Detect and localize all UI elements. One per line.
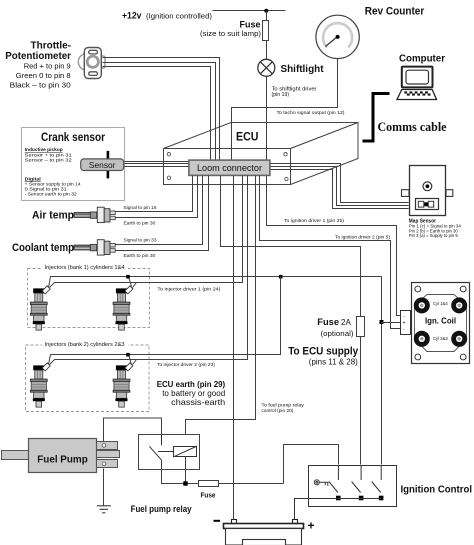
wire 12v rail down right side: [381, 277, 383, 465]
svg-text:control (pin 20): control (pin 20): [261, 408, 293, 414]
comms cable (thick): [363, 94, 390, 142]
wire ignition switch feed: [284, 445, 339, 484]
svg-text:To fuel pump relay: To fuel pump relay: [261, 403, 304, 409]
wire pot red (pin 9): [103, 58, 220, 161]
wire fuel pump relay control (pin 20): [186, 176, 256, 447]
svg-text:To injector driver 1 (pin 24): To injector driver 1 (pin 24): [157, 287, 220, 293]
svg-text:Comms cable: Comms cable: [378, 119, 447, 134]
crank sensor box: [22, 128, 125, 201]
svg-text:Signal to pin 33: Signal to pin 33: [124, 238, 157, 244]
injector bank 2 box: [26, 345, 150, 412]
wire ignition driver 2 (pin 5): [260, 176, 401, 329]
rev counter gauge: [316, 15, 359, 58]
svg-text:Cyl 2&3: Cyl 2&3: [433, 336, 448, 341]
wire fuse to shiftlight: [266, 41, 268, 60]
computer (laptop icon): [397, 67, 437, 100]
wire pot black (pin 30): [103, 67, 211, 161]
svg-text:Ignition Control: Ignition Control: [401, 485, 473, 496]
svg-text:Injectors (bank 2) cylinders 2: Injectors (bank 2) cylinders 2&3: [45, 342, 125, 348]
wires crank sensor to loom: [125, 161, 189, 163]
svg-text:Green 0 to pin 8: Green 0 to pin 8: [16, 71, 71, 80]
svg-text:(pins 11 & 28): (pins 11 & 28): [309, 358, 358, 367]
coolant temp sensor icon: [74, 240, 115, 255]
fuse F-pump (main fuse): [199, 481, 219, 487]
svg-text:2A: 2A: [341, 318, 351, 327]
wire ECU earth (pin 29) to battery minus: [233, 176, 235, 520]
svg-text:Pin 3 (a) = Supply to pin 9: Pin 3 (a) = Supply to pin 9: [409, 233, 459, 238]
fuel pump relay box: [139, 435, 200, 470]
svg-text:Red + to pin 9: Red + to pin 9: [24, 62, 71, 71]
wire injector driver 2 (pin 23): [55, 176, 248, 360]
svg-text:Sensor – to pin 32: Sensor – to pin 32: [25, 157, 72, 163]
wire injector I1 stub to driver: [50, 283, 55, 288]
throttle potentiometer icon: [78, 48, 105, 79]
svg-text:Cyl 1&4: Cyl 1&4: [433, 301, 448, 306]
svg-text:Loom connector: Loom connector: [197, 163, 262, 173]
ground symbol: [97, 506, 111, 513]
wire coolant earth (pin 30): [116, 176, 209, 251]
svg-text:(Ignition controlled): (Ignition controlled): [146, 13, 212, 20]
key icon: [314, 480, 328, 486]
svg-text:Fuel Pump: Fuel Pump: [37, 455, 88, 466]
svg-text:Fuel pump relay: Fuel pump relay: [131, 504, 192, 514]
relay coil: [174, 447, 197, 457]
svg-text:To ignition driver 1 (pin 25): To ignition driver 1 (pin 25): [284, 218, 344, 224]
svg-text:Fuse: Fuse: [240, 20, 261, 30]
fuse F-lamp (shiftlight fuse): [200, 11, 269, 41]
wires loom to map sensor: [271, 164, 409, 203]
node junction relay-fuse: [183, 481, 187, 485]
wire tacho output (pin 12): [232, 59, 338, 161]
svg-text:+: +: [308, 519, 315, 533]
svg-text:+12v: +12v: [122, 11, 142, 21]
injector I1 (bank1 left): [30, 286, 50, 330]
wire injector I4 stubs: [129, 355, 132, 365]
wire relay coil to fuse junction: [185, 457, 187, 484]
ignition control box: [309, 466, 397, 507]
node junction bank2 feed: [126, 353, 130, 357]
svg-text:Signal to pin 16: Signal to pin 16: [124, 205, 157, 211]
wire relay to fuel pump: [104, 418, 162, 442]
wire ECU supply via fuse 2A (pins 11 & 28): [221, 176, 361, 465]
fuse F2A (optional): [357, 317, 365, 337]
wire switch bus to battery plus: [295, 499, 382, 520]
node junction bank1 rail: [126, 275, 130, 279]
svg-text:Injectors (bank 1) cylinders 1: Injectors (bank 1) cylinders 1&4: [45, 265, 125, 271]
node junction coil feed: [380, 320, 384, 324]
svg-text:Shiftlight: Shiftlight: [281, 64, 325, 75]
air temp sensor icon: [74, 207, 115, 222]
switch S1: [329, 465, 339, 493]
injector bank 1 box: [28, 269, 150, 328]
wire injector I3 stubs: [49, 355, 51, 365]
wire ignition driver 1 (pin 25): [267, 176, 401, 316]
injector I2 (bank1 right): [113, 286, 133, 330]
svg-text:To tacho signal output (pin 12: To tacho signal output (pin 12): [277, 110, 345, 116]
svg-text:Potentiometer: Potentiometer: [5, 50, 71, 62]
svg-text:Crank sensor: Crank sensor: [41, 132, 105, 144]
svg-text:Ign. Coil: Ign. Coil: [425, 316, 456, 326]
node junction rail to supply drop: [279, 275, 283, 279]
svg-text:chassis-earth: chassis-earth: [171, 397, 225, 407]
wire injector driver 1 (pin 24): [55, 176, 243, 283]
svg-text:Fuse: Fuse: [201, 491, 216, 500]
svg-text:To ignition driver 2 (pin 5): To ignition driver 2 (pin 5): [335, 234, 390, 240]
svg-text:To ECU supply: To ECU supply: [288, 345, 358, 357]
wire coolant signal (pin 33): [116, 176, 203, 245]
svg-text:Inductive pickup: Inductive pickup: [25, 147, 63, 153]
node junction on +12v line: [264, 9, 268, 13]
wire +12v feed line: [213, 10, 286, 12]
svg-text:Coolant temp: Coolant temp: [12, 242, 74, 254]
svg-text:Black – to pin 30: Black – to pin 30: [10, 80, 71, 89]
relay switch: [161, 434, 163, 445]
injector I3 (bank2 left): [30, 363, 50, 407]
wire air signal (pin 16): [116, 176, 193, 212]
svg-text:Earth to pin 30: Earth to pin 30: [124, 253, 156, 259]
svg-text:(optional): (optional): [321, 329, 354, 338]
svg-text:ECU: ECU: [236, 130, 259, 144]
svg-text:(pin 19): (pin 19): [272, 92, 290, 98]
ECU screws: [167, 153, 288, 181]
ignition coil: [412, 283, 470, 364]
crank sensor pill: [81, 159, 124, 171]
svg-text:- Sensor earth to pin 32: - Sensor earth to pin 32: [25, 192, 77, 198]
svg-text:Sensor: Sensor: [89, 160, 116, 170]
svg-text:Earth to pin 30: Earth to pin 30: [124, 220, 156, 226]
coil connector: [401, 311, 411, 335]
svg-text:Air temp: Air temp: [32, 209, 74, 221]
map sensor: [402, 166, 453, 216]
injector I4 (bank2 right): [113, 363, 133, 407]
svg-text:(size to suit lamp): (size to suit lamp): [200, 31, 261, 38]
svg-text:To injector driver 2 (pin 23): To injector driver 2 (pin 23): [157, 362, 215, 368]
switch S2: [352, 465, 362, 493]
ECU box (3D): [164, 123, 359, 185]
svg-text:+: +: [403, 320, 406, 326]
wire 12v rail drop to bank2 feed: [51, 277, 281, 355]
wire junction to coil +: [382, 322, 401, 324]
wire fuel pump to ground: [103, 469, 105, 506]
wire 12v rail bank1: [49, 277, 382, 288]
svg-text:Fuse: Fuse: [317, 317, 339, 327]
battery: [224, 520, 304, 545]
wire injector I2 stubs: [129, 277, 132, 287]
fuel pump: [2, 439, 120, 473]
wire air earth (pin 30): [116, 176, 198, 218]
wire shiftlight to loom (pin 19): [266, 77, 268, 161]
switch S3: [372, 465, 382, 493]
shiftlight lamp: [258, 59, 275, 76]
wire pot green (pin 8): [103, 63, 216, 161]
wire fuse to ignition switch feed: [219, 483, 284, 485]
svg-text:Computer: Computer: [399, 54, 445, 65]
loom connector: [189, 160, 270, 175]
svg-text:Rev Counter: Rev Counter: [365, 6, 425, 18]
crank trigger bar: [107, 151, 110, 179]
svg-text:Digital: Digital: [25, 176, 42, 182]
